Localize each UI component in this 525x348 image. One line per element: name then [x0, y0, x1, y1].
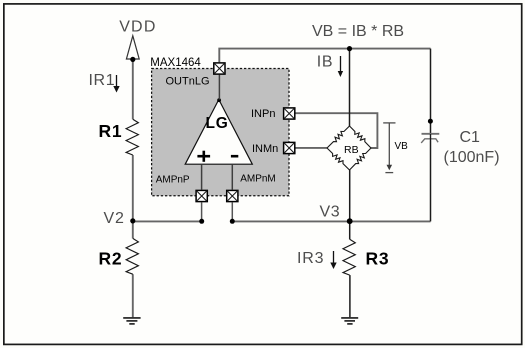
svg-text:OUTnLG: OUTnLG — [166, 76, 210, 88]
svg-text:IB: IB — [317, 54, 333, 71]
svg-text:INMn: INMn — [252, 143, 278, 155]
svg-text:IR3: IR3 — [297, 250, 324, 267]
svg-text:VDD: VDD — [119, 19, 156, 36]
svg-text:R3: R3 — [366, 249, 390, 269]
svg-text:C1: C1 — [460, 129, 481, 146]
svg-text:R2: R2 — [99, 249, 123, 269]
svg-text:INPn: INPn — [251, 108, 275, 120]
svg-text:VB = IB * RB: VB = IB * RB — [312, 23, 404, 40]
svg-text:RB: RB — [344, 144, 359, 156]
svg-text:VB: VB — [395, 141, 409, 152]
svg-text:MAX1464: MAX1464 — [150, 57, 201, 69]
svg-text:LG: LG — [206, 115, 229, 132]
svg-text:V3: V3 — [320, 204, 341, 221]
svg-text:R1: R1 — [99, 121, 123, 141]
svg-text:IR1: IR1 — [89, 72, 116, 89]
svg-text:AMPnP: AMPnP — [156, 174, 190, 185]
svg-text:V2: V2 — [104, 210, 125, 227]
svg-text:(100nF): (100nF) — [444, 149, 500, 166]
svg-text:AMPnM: AMPnM — [240, 173, 276, 184]
